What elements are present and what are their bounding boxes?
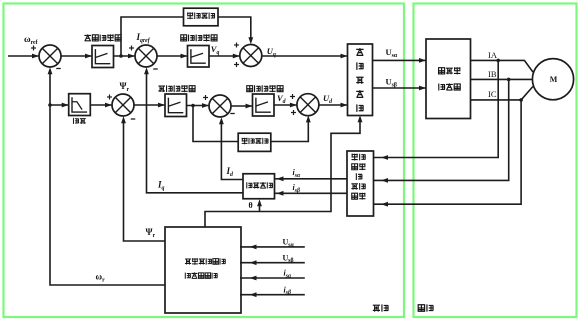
wire Usa to inverter <box>373 59 427 61</box>
wire i_sb to rotation transform <box>275 192 347 194</box>
summing junction S6 (d-axis voltage) <box>297 94 319 116</box>
field weakening box (ruo ci) <box>69 94 91 116</box>
wire to field weakening box <box>50 104 69 106</box>
plus sign at S4 <box>203 97 208 99</box>
label speed regulator (su du tiao jie qi) <box>84 34 91 41</box>
wire IC current feedback <box>374 100 522 204</box>
junction dot IA <box>496 59 500 63</box>
voltage source inverter box (dian ya xing ni bian qi) <box>426 39 471 119</box>
wire speed reference input <box>8 55 39 57</box>
motor M <box>532 59 573 100</box>
label flux regulator (ci lian tiao jie qi) <box>158 86 165 92</box>
wire IB phase to motor <box>471 78 533 80</box>
three-phase to two-phase stationary transform box <box>347 151 374 216</box>
summing junction S1 (speed error) <box>39 45 61 67</box>
svg-text:IC: IC <box>488 89 497 99</box>
wire S3 to flux regulator <box>134 104 165 106</box>
wire S1 to speed regulator <box>61 55 92 57</box>
plus sign at S3 <box>107 96 112 98</box>
speed regulator box <box>92 46 114 68</box>
hardware region frame <box>414 4 577 318</box>
plus signs at S5 <box>234 44 239 46</box>
wire IB current feedback <box>374 79 509 180</box>
wire theta branch to rotation transform <box>259 205 261 212</box>
wire IC phase to motor <box>471 87 533 100</box>
feedforward FF1 box <box>184 8 219 26</box>
wire field weakening to S3 <box>90 104 112 106</box>
label hardware (ying jian) <box>418 305 424 312</box>
summing junction S5 (q-axis voltage) <box>240 45 262 67</box>
minus sign at S4 <box>230 113 235 115</box>
feedforward FF2 box <box>238 133 271 151</box>
plus sign at S1 <box>31 47 36 49</box>
wire IA phase to motor <box>471 60 533 72</box>
label software (ruan jian) <box>373 305 380 311</box>
label feedforward FF1 (qian kui bu chang) <box>187 12 193 19</box>
observer input stub Usb <box>240 262 305 264</box>
wire Id feedback from rotation transform to S4 <box>221 123 243 180</box>
minus sign at S3 <box>131 118 136 120</box>
minus sign at S2 <box>153 68 158 70</box>
wire Psi_r feedback from observer to S3 <box>124 122 166 241</box>
label ruo ci <box>73 118 78 124</box>
wire Iqref tap up to feedforward FF1 <box>121 17 184 56</box>
junction dot FF2 tap <box>191 104 195 108</box>
minus sign at S1 <box>56 68 61 70</box>
current regulator CR1 box <box>188 46 210 68</box>
wire S5 to inverse rotation transform <box>262 55 348 57</box>
label feedforward FF2 <box>242 138 248 144</box>
summing junction S3 (flux error) <box>112 94 134 116</box>
svg-text:M: M <box>550 75 558 84</box>
plus sign at S2 <box>129 47 134 49</box>
plus signs at S6 <box>290 96 295 98</box>
flux regulator box <box>165 94 187 117</box>
wire Usb to inverter <box>373 87 427 89</box>
wire CR1 to S5 <box>209 55 240 57</box>
rotor flux and speed observer box <box>165 227 241 313</box>
software region frame <box>4 4 405 318</box>
wire CR2 to S6 <box>274 104 297 106</box>
observer input stub Usa <box>240 246 305 248</box>
wire tap down to feedforward FF2 <box>193 106 238 142</box>
rotation transform box (xuan zhuan bian huan) <box>243 174 275 199</box>
wire S2 to current regulator CR1 <box>157 55 188 57</box>
current regulator CR2 box <box>253 94 275 116</box>
wire i_sa to rotation transform <box>275 178 347 180</box>
wire flux regulator to S4 <box>187 105 210 107</box>
svg-text:IB: IB <box>488 69 497 79</box>
wire S4 to current regulator CR2 <box>231 105 253 107</box>
junction dot IB <box>507 78 511 82</box>
junction dot IC <box>519 98 523 102</box>
svg-text:IA: IA <box>488 50 498 60</box>
wire theta net from observer <box>205 121 360 227</box>
wire IA current feedback <box>374 60 499 157</box>
wire speed regulator to S2 <box>114 55 136 57</box>
summing junction S2 (torque current error) <box>135 45 157 67</box>
wire FF2 output to S6 <box>271 121 309 142</box>
observer input stub i_sa <box>240 277 305 279</box>
wire Iq feedback to S2 <box>147 73 244 193</box>
label current regulator 2 <box>247 86 253 92</box>
wire FF1 output to S5 <box>218 17 251 38</box>
junction dot Iqref tap <box>119 54 123 58</box>
inverse rotation transform box (fan xuan zhuan bian huan) <box>348 44 373 116</box>
label current regulator 1 (dian liu tiao jie qi) <box>181 35 187 41</box>
observer input stub i_sb <box>240 294 305 296</box>
wire omega_r feedback to S1 and field weakening <box>50 73 165 285</box>
svg-text:θ: θ <box>249 201 253 210</box>
junction dot omega_r tap to field weakening <box>48 103 52 107</box>
wire S6 to inverse rotation transform <box>319 104 348 106</box>
summing junction S4 (d current error) <box>209 95 231 117</box>
